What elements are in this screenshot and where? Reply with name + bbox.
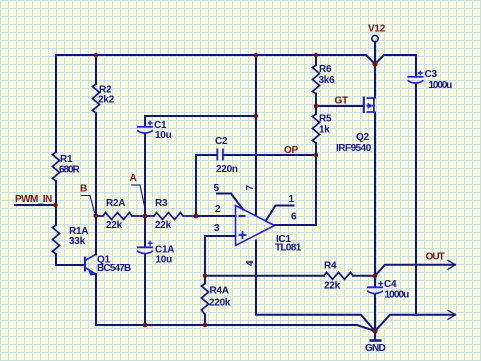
- svg-text:R2A: R2A: [106, 198, 125, 209]
- svg-text:3k6: 3k6: [319, 75, 336, 86]
- svg-text:C3: C3: [425, 69, 438, 80]
- svg-text:IRF9540: IRF9540: [336, 143, 372, 154]
- svg-text:GND: GND: [365, 343, 386, 354]
- svg-text:C4: C4: [384, 279, 397, 290]
- svg-text:1k: 1k: [319, 125, 330, 136]
- svg-text:TL081: TL081: [275, 243, 302, 254]
- svg-text:6: 6: [291, 212, 297, 223]
- svg-text:A: A: [130, 173, 137, 184]
- svg-text:R4A: R4A: [210, 286, 229, 297]
- svg-text:R3: R3: [155, 198, 168, 209]
- svg-text:22k: 22k: [155, 220, 172, 231]
- svg-text:680R: 680R: [59, 165, 81, 176]
- svg-text:2: 2: [215, 204, 221, 215]
- svg-text:1000u: 1000u: [385, 290, 410, 301]
- svg-text:10u: 10u: [155, 130, 172, 141]
- svg-text:2k2: 2k2: [98, 95, 115, 106]
- svg-text:R4: R4: [324, 261, 337, 272]
- svg-text:R5: R5: [319, 114, 332, 125]
- svg-text:C2: C2: [215, 136, 228, 147]
- svg-text:3: 3: [214, 223, 220, 234]
- svg-text:4: 4: [245, 260, 256, 266]
- svg-text:PWM_IN: PWM_IN: [15, 194, 52, 205]
- svg-text:22k: 22k: [324, 281, 341, 292]
- svg-text:OUT: OUT: [426, 252, 445, 263]
- svg-text:33k: 33k: [69, 236, 86, 247]
- svg-text:B: B: [80, 184, 87, 195]
- svg-text:220n: 220n: [216, 164, 238, 175]
- svg-text:5: 5: [214, 183, 220, 194]
- svg-text:7: 7: [245, 185, 256, 191]
- svg-text:220k: 220k: [209, 298, 231, 309]
- svg-text:Q2: Q2: [356, 132, 370, 143]
- svg-text:V12: V12: [368, 24, 386, 35]
- svg-text:BC547B: BC547B: [97, 263, 131, 274]
- svg-text:10u: 10u: [156, 255, 173, 266]
- svg-text:GT: GT: [335, 96, 349, 107]
- svg-text:1: 1: [289, 194, 295, 205]
- svg-text:R6: R6: [319, 64, 332, 75]
- svg-text:1000u: 1000u: [429, 80, 453, 91]
- svg-text:22k: 22k: [106, 220, 123, 231]
- svg-text:OP: OP: [284, 145, 299, 156]
- svg-text:R1: R1: [60, 154, 73, 165]
